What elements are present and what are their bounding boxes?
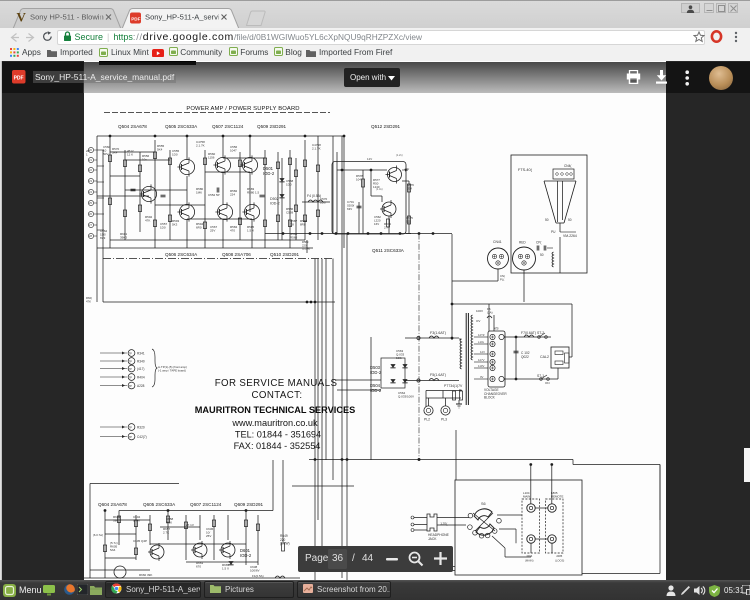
svg-text:S6: S6 — [481, 502, 486, 506]
svg-text:110V: 110V — [478, 364, 484, 368]
svg-text:100/6V: 100/6V — [250, 569, 260, 573]
svg-text:J-70(: J-70( — [440, 522, 448, 526]
svg-text:ON: ON — [545, 381, 550, 385]
svg-text:1D0: 1D0 — [172, 153, 178, 157]
svg-text:F5(1.6AT): F5(1.6AT) — [430, 373, 446, 377]
svg-text:OV: OV — [476, 319, 480, 323]
svg-text:R320: R320 — [137, 426, 145, 430]
svg-text:25V: 25V — [206, 534, 211, 538]
svg-text:0V: 0V — [480, 375, 484, 379]
svg-text:670: 670 — [196, 565, 201, 569]
svg-text:Q609 2SD291: Q609 2SD291 — [234, 502, 264, 507]
svg-text:5K4: 5K4 — [112, 151, 118, 155]
svg-text:(LOOS): (LOOS) — [555, 559, 564, 563]
svg-text:100V: 100V — [476, 309, 483, 313]
svg-text:A228: A228 — [137, 384, 145, 388]
svg-text:(6.0.7w): (6.0.7w) — [93, 533, 103, 537]
svg-text:PDF: PDF — [14, 76, 24, 82]
svg-text:12 K: 12 K — [127, 153, 133, 157]
svg-text:C8: C8 — [290, 223, 294, 227]
svg-text:F4 (0.5A): F4 (0.5A) — [307, 194, 321, 198]
svg-text:CONTACT:: CONTACT: — [252, 390, 303, 401]
svg-text:24: 24 — [89, 190, 92, 194]
svg-text:CP(: CP( — [536, 241, 542, 245]
svg-text:63V: 63V — [347, 207, 352, 211]
svg-text:V: V — [17, 10, 27, 25]
svg-text:1D0: 1D0 — [286, 183, 292, 187]
svg-text:27: 27 — [89, 223, 92, 227]
svg-text:470: 470 — [230, 229, 235, 233]
svg-text:12V: 12V — [367, 157, 372, 161]
svg-text:27.1V: 27.1V — [186, 523, 194, 527]
svg-text:1: 1 — [86, 153, 88, 157]
svg-text:1D0: 1D0 — [160, 226, 166, 230]
svg-text:R660 39K: R660 39K — [139, 573, 152, 577]
svg-text:PT734(1)7V: PT734(1)7V — [444, 384, 463, 388]
svg-text:39K3: 39K3 — [120, 236, 127, 240]
svg-text:Q605 2SC633A: Q605 2SC633A — [143, 502, 176, 507]
svg-text:R340: R340 — [137, 360, 145, 364]
svg-text:MAIN: MAIN — [523, 495, 530, 499]
svg-text:R560: R560 — [290, 236, 298, 240]
svg-text:39K: 39K — [113, 519, 118, 523]
svg-text:5K3: 5K3 — [172, 223, 178, 227]
svg-text:TP: TP — [129, 435, 133, 439]
svg-text:Q505 2SC633A: Q505 2SC633A — [165, 124, 198, 129]
svg-text:5A6: 5A6 — [110, 548, 116, 552]
svg-text:CAL2: CAL2 — [540, 355, 549, 359]
svg-text:BLOCK: BLOCK — [484, 396, 496, 400]
svg-text:IOD-2: IOD-2 — [263, 171, 275, 176]
svg-text:Q508 2SA706: Q508 2SA706 — [222, 252, 251, 257]
svg-text:620: 620 — [406, 220, 411, 224]
svg-text:REMOTE: REMOTE — [551, 495, 563, 499]
svg-text:IOD-2: IOD-2 — [270, 202, 280, 206]
svg-text:2.1.7K: 2.1.7K — [312, 147, 321, 151]
svg-text:1047: 1047 — [230, 149, 237, 153]
svg-text:224: 224 — [230, 193, 235, 197]
svg-text:PL3: PL3 — [441, 418, 447, 422]
svg-text:23: 23 — [89, 179, 92, 183]
svg-text:L10x: L10x — [478, 340, 485, 344]
svg-text:IOD-2: IOD-2 — [370, 388, 382, 393]
svg-text:(417): (417) — [137, 367, 144, 371]
svg-text:TP: TP — [129, 352, 133, 356]
svg-text:1.5 X: 1.5 X — [222, 567, 229, 571]
svg-text:2.7K: 2.7K — [163, 531, 169, 535]
svg-text:(MAIN): (MAIN) — [525, 559, 534, 563]
svg-text:1M6: 1M6 — [196, 191, 202, 195]
svg-text:TP: TP — [129, 360, 133, 364]
svg-text:47K: 47K — [145, 219, 150, 223]
svg-text:C605 Q4P: C605 Q4P — [133, 539, 147, 543]
svg-text:(1/2W): (1/2W) — [302, 247, 310, 251]
svg-text:1.5 X: 1.5 X — [247, 229, 254, 233]
svg-text:Q510 2SD291: Q510 2SD291 — [270, 252, 300, 257]
svg-text:Q512 2SD291: Q512 2SD291 — [371, 124, 401, 129]
svg-text:FOR SERVICE MANUALS: FOR SERVICE MANUALS — [215, 378, 338, 389]
svg-text:(1.4v): (1.4v) — [376, 187, 383, 191]
svg-text:FTS-40(: FTS-40( — [518, 168, 533, 172]
svg-text:Q509 2SD291: Q509 2SD291 — [257, 124, 287, 129]
svg-text:CN4(: CN4( — [564, 164, 572, 168]
svg-text:VS: VS — [494, 327, 499, 331]
svg-text:8R0: 8R0 — [300, 223, 306, 227]
svg-text:IOD-2: IOD-2 — [240, 553, 252, 558]
svg-text:C42(7): C42(7) — [137, 435, 147, 439]
svg-text:POWER AMP / POWER SUPPLY BO: POWER AMP / POWER SUPPLY BOARD — [186, 106, 299, 112]
svg-text:Q607 2SC1124: Q607 2SC1124 — [190, 502, 222, 507]
svg-text:www.mauritron.co.uk: www.mauritron.co.uk — [231, 418, 318, 428]
svg-text:F3(1.6AT): F3(1.6AT) — [430, 331, 446, 335]
svg-text:PL2: PL2 — [424, 418, 430, 422]
svg-text:MAURITRON TECHNICAL SERVICES: MAURITRON TECHNICAL SERVICES — [195, 405, 355, 415]
svg-text:TP: TP — [129, 367, 133, 371]
svg-text:104: 104 — [356, 178, 361, 182]
svg-text:28: 28 — [89, 234, 92, 238]
svg-text:12T#: 12T# — [478, 333, 485, 337]
svg-text:(2A): (2A) — [487, 311, 493, 315]
svg-text:C552 5P: C552 5P — [208, 193, 220, 197]
svg-text:Q047: Q047 — [133, 519, 141, 523]
svg-text:C569: C569 — [286, 211, 294, 215]
svg-text:FAX: 01844 - 352554: FAX: 01844 - 352554 — [234, 441, 321, 451]
svg-text:204: 204 — [407, 187, 412, 191]
svg-text:26: 26 — [89, 212, 92, 216]
svg-text:JACK: JACK — [428, 537, 437, 541]
svg-text:(1.2v): (1.2v) — [396, 153, 403, 157]
svg-text:22: 22 — [89, 168, 92, 172]
svg-text:PU: PU — [551, 230, 556, 234]
svg-text:Q.033/100V: Q.033/100V — [398, 395, 414, 399]
svg-text:D502: D502 — [270, 197, 279, 201]
svg-text:25V: 25V — [210, 229, 215, 233]
svg-text:VM-2264: VM-2264 — [563, 234, 577, 238]
svg-text:PL(: PL( — [500, 277, 504, 281]
svg-text:20: 20 — [89, 148, 92, 152]
svg-text:R341: R341 — [137, 352, 145, 356]
svg-text:2.1.7K: 2.1.7K — [196, 144, 205, 148]
svg-text:50V: 50V — [103, 152, 108, 156]
svg-text:F1(0.5A): F1(0.5A) — [252, 574, 264, 578]
svg-text:F7(0.6AT) ST-2: F7(0.6AT) ST-2 — [521, 331, 544, 335]
svg-text:RED: RED — [519, 241, 526, 245]
svg-text:Q511 2SC633A: Q511 2SC633A — [372, 248, 405, 253]
svg-text:50: 50 — [568, 218, 572, 222]
svg-text:PDF: PDF — [131, 17, 140, 22]
svg-text:21: 21 — [89, 158, 92, 162]
svg-text:Q022: Q022 — [521, 355, 529, 359]
svg-text:2.7: 2.7 — [384, 226, 388, 230]
svg-text:3.3K: 3.3K — [166, 521, 172, 525]
svg-text:Q507 2SC1124: Q507 2SC1124 — [212, 124, 244, 129]
svg-text:16V: 16V — [374, 222, 379, 226]
svg-text:47K: 47K — [86, 299, 91, 303]
svg-text:R404: R404 — [137, 376, 145, 380]
svg-text:1156: 1156 — [208, 156, 215, 160]
svg-text:100r: 100r — [396, 356, 402, 360]
svg-text:J205: J205 — [556, 554, 563, 558]
svg-text:TP: TP — [129, 426, 133, 430]
svg-text:IOD-2: IOD-2 — [370, 370, 382, 375]
svg-text:TP: TP — [129, 384, 133, 388]
svg-text:25: 25 — [89, 201, 92, 205]
svg-text:R580 1.5: R580 1.5 — [247, 191, 260, 195]
svg-text:Q506 2SC634A: Q506 2SC634A — [165, 252, 198, 257]
svg-text:6R0: 6R0 — [196, 226, 202, 230]
svg-text:100/: 100/ — [320, 201, 326, 205]
svg-text:J204: J204 — [526, 554, 533, 558]
svg-text:Q604 2SA678: Q604 2SA678 — [98, 502, 127, 507]
svg-text:12V: 12V — [480, 350, 485, 354]
svg-text:50: 50 — [540, 253, 544, 257]
svg-text:TEL: 01844 - 351694: TEL: 01844 - 351694 — [235, 430, 321, 440]
svg-text:5K4: 5K4 — [157, 148, 163, 152]
svg-text:127V: 127V — [478, 358, 485, 362]
svg-text:CN41: CN41 — [493, 240, 502, 244]
svg-text:(-1 amp / TAPE board): (-1 amp / TAPE board) — [158, 368, 186, 372]
svg-text:50: 50 — [545, 218, 549, 222]
svg-text:Q504 2SA678: Q504 2SA678 — [118, 124, 147, 129]
svg-text:TP: TP — [129, 376, 133, 380]
svg-text:10x: 10x — [142, 158, 147, 162]
